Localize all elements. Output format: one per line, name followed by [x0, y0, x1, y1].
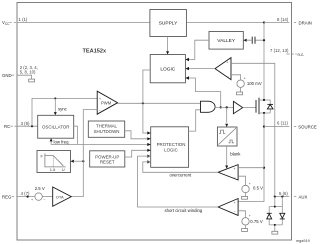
- svg-text:−: −: [234, 210, 236, 214]
- svg-text:RC: RC: [4, 124, 10, 129]
- svg-text:5, 8, 10): 5, 8, 10): [20, 70, 36, 75]
- svg-text:low freq: low freq: [54, 140, 70, 145]
- svg-text:−: −: [99, 109, 101, 113]
- svg-text:SUPPLY: SUPPLY: [159, 20, 178, 26]
- svg-text:LOGIC: LOGIC: [164, 147, 178, 152]
- svg-text:7 (12, 13): 7 (12, 13): [270, 48, 289, 53]
- node aux dot2: [281, 196, 283, 198]
- pin DRAIN 8: [264, 17, 312, 25]
- wire valley to cap, arrow into valley: [243, 39, 246, 42]
- wire error vertical to PWM - input: [71, 110, 97, 197]
- svg-text:GND: GND: [2, 73, 12, 78]
- svg-text:POWER-UP: POWER-UP: [95, 154, 119, 159]
- svg-text:PWM: PWM: [101, 101, 112, 106]
- svg-text:0.5 V: 0.5 V: [253, 185, 263, 190]
- wire short winding out to protection in5: [138, 156, 219, 207]
- svg-text:DRAIN: DRAIN: [299, 20, 312, 25]
- svg-text:−: −: [227, 75, 229, 79]
- wire VCC to SUPPLY: [17, 22, 150, 24]
- curve block F(U): [37, 151, 71, 173]
- svg-text:SOURCE: SOURCE: [298, 124, 317, 129]
- svg-text:2.5 V: 2.5 V: [35, 186, 45, 191]
- svg-text:1 (1): 1 (1): [19, 17, 28, 22]
- op-amp OTA error amplifier: [53, 187, 72, 206]
- wire thermal shutdown to protection in2: [125, 131, 151, 139]
- svg-text:+: +: [234, 201, 236, 205]
- pin SOURCE 6: [264, 120, 317, 129]
- wire LOGIC left pin down to protection in1: [143, 70, 151, 133]
- wire SUPPLY to LOGIC with arrow: [167, 37, 169, 53]
- svg-text:n.c.: n.c.: [298, 52, 305, 57]
- wire protection out to AND gate lower input: [189, 110, 201, 131]
- svg-text:+: +: [226, 61, 228, 65]
- wire overcurrent - to 0.5V: [238, 176, 245, 185]
- wire driver to gate: [243, 107, 256, 109]
- node overcurrent sense junction: [263, 167, 265, 169]
- comparator PWM: [97, 91, 117, 114]
- svg-text:AUX: AUX: [299, 194, 308, 199]
- ground symbol 0.5V: [242, 196, 248, 199]
- comparator short winding: [218, 199, 238, 216]
- svg-text:sync: sync: [58, 106, 68, 111]
- pin VCC 1: [2, 17, 150, 26]
- ground symbol AUX clamp: [272, 231, 278, 234]
- wire power-up reset to protection in4: [125, 150, 151, 157]
- wire AND out to driver: [215, 106, 234, 108]
- svg-text:8 (14): 8 (14): [277, 17, 289, 22]
- svg-text:RESET: RESET: [100, 160, 115, 165]
- node aux bus dot1: [274, 196, 276, 198]
- wire low freq into oscillator bottom: [50, 141, 52, 145]
- source 100 mV: [237, 76, 262, 92]
- svg-text:−: −: [234, 175, 236, 179]
- wire sync into oscillator: [54, 98, 56, 112]
- source 2.5 V reference: [31, 186, 53, 202]
- gate AND: [201, 101, 216, 112]
- svg-text:VALLEY: VALLEY: [217, 38, 236, 44]
- ground symbol GND pin: [29, 79, 35, 82]
- svg-text:U: U: [62, 167, 65, 172]
- driver buffer: [233, 101, 242, 113]
- svg-text:mga919: mga919: [296, 239, 310, 243]
- wire blank out to overcurrent comparator enable: [226, 146, 228, 166]
- node mosfet source junction: [263, 112, 265, 114]
- zener diode clamp: [267, 100, 273, 113]
- oscillator block: [38, 115, 74, 138]
- node RC junction: [31, 125, 33, 127]
- logic block U-LOGIC: [150, 55, 185, 83]
- node curve tap: [82, 160, 84, 162]
- thermal shutdown block: [88, 121, 124, 137]
- wire overcurrent + to source bus: [238, 167, 264, 169]
- svg-text:OTA: OTA: [56, 194, 64, 199]
- svg-text:TEA152x: TEA152x: [83, 49, 108, 55]
- wire SUPPLY to drain bus: [186, 22, 264, 24]
- capacitor dv/dt: [252, 37, 255, 44]
- valley block: [209, 32, 243, 50]
- wire curve box input from error node: [71, 160, 74, 163]
- svg-text:+: +: [234, 167, 236, 171]
- wire LOGIC in3 feedback from gate node: [185, 78, 220, 107]
- pin REG 4: [2, 191, 35, 200]
- diode D1 cathode up: [267, 213, 272, 219]
- svg-text:5 (6): 5 (6): [279, 191, 288, 196]
- node blank branch dot2: [226, 106, 228, 108]
- protection logic block: [151, 127, 189, 168]
- wire RC to PWM + input: [32, 98, 97, 126]
- svg-text:LOGIC: LOGIC: [160, 66, 175, 72]
- wire short winding - to 0.75V: [238, 211, 245, 218]
- wire overcurrent out to protection in6: [143, 162, 218, 172]
- node REG junction: [27, 196, 29, 198]
- wire drain bus: [263, 23, 265, 101]
- node mosfet drain junction: [263, 99, 265, 101]
- wire PWM out to AND gate: [118, 102, 201, 104]
- wire source bus: [238, 113, 264, 202]
- node valley-cap junction: [263, 39, 265, 41]
- one-shot blank block: [217, 127, 241, 157]
- node source pin junction: [263, 125, 265, 127]
- node PWM out junction: [142, 102, 144, 104]
- wire oscillator right output to low freq net: [74, 126, 78, 144]
- node gate feedback dot1: [220, 106, 222, 108]
- diode clamp pair at AUX: [267, 197, 285, 232]
- svg-text:+: +: [249, 214, 251, 218]
- svg-text:+: +: [244, 76, 246, 80]
- pin n.c. 7: [270, 48, 304, 57]
- svg-text:blank: blank: [230, 152, 241, 157]
- wire to blank one-shot: [226, 107, 228, 122]
- wire demag - to 100mV source: [231, 75, 241, 80]
- svg-text:overcurrent: overcurrent: [170, 173, 193, 178]
- pin AUX 5: [275, 191, 308, 199]
- pin GND 2: [2, 65, 38, 79]
- svg-text:SHUTDOWN: SHUTDOWN: [94, 129, 120, 134]
- comparator demag: [215, 58, 231, 80]
- source 0.5 V: [242, 182, 263, 197]
- ground symbol 100mV: [237, 92, 243, 95]
- node drain-top junction: [263, 21, 265, 23]
- svg-text:OSCILLATOR: OSCILLATOR: [42, 124, 69, 129]
- wire demag + to aux bus: [231, 63, 275, 196]
- node sync junction: [54, 97, 56, 99]
- svg-text:−: −: [43, 198, 45, 202]
- comparator overcurrent: [218, 165, 238, 180]
- svg-text:+: +: [249, 182, 251, 186]
- ground symbol 0.75V: [242, 229, 248, 232]
- svg-text:0.75 V: 0.75 V: [250, 219, 263, 224]
- supply block U-SUPPLY: [150, 10, 187, 37]
- protection input arrows: [147, 131, 150, 163]
- svg-text:4 (7): 4 (7): [21, 191, 30, 196]
- svg-text:+: +: [31, 198, 33, 202]
- svg-text:1.6: 1.6: [50, 167, 56, 172]
- transistor Q1 power MOSFET: [256, 98, 270, 115]
- wire low freq to protection logic: [51, 144, 151, 146]
- svg-text:6 (11): 6 (11): [277, 120, 288, 125]
- svg-text:100 mV: 100 mV: [247, 81, 262, 86]
- svg-text:THERMAL: THERMAL: [96, 124, 118, 129]
- wire LOGIC in1 to VALLEY: [185, 40, 209, 59]
- source 0.75 V: [242, 214, 263, 229]
- power-up reset block: [90, 151, 125, 167]
- svg-text:REG: REG: [2, 195, 12, 200]
- diode D2 cathode down: [280, 213, 285, 219]
- pin RC 3: [4, 121, 38, 129]
- svg-text:3 (9): 3 (9): [21, 121, 30, 126]
- svg-text:short circuit winding: short circuit winding: [165, 208, 203, 213]
- wire demag out to LOGIC in2: [185, 68, 215, 70]
